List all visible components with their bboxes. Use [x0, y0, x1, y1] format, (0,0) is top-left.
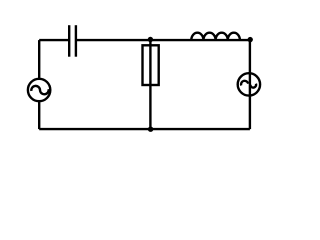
- AC source V2 sine left hump: [241, 81, 248, 86]
- wire left upper: [38, 40, 40, 79]
- node top-right junction dot: [248, 37, 253, 42]
- wire middle branch: [149, 40, 151, 129]
- AC source V1 sine: [31, 86, 48, 94]
- fuse F1 body: [143, 45, 159, 85]
- capacitor C1 plate left: [68, 25, 70, 57]
- wire top-left segment: [39, 39, 69, 41]
- wire top-middle segment: [76, 39, 250, 41]
- AC source V2 circle: [238, 73, 260, 95]
- AC source V1 circle: [28, 79, 50, 101]
- AC source V2 sine right hump: [250, 84, 256, 88]
- node bottom-middle junction dot: [148, 127, 153, 132]
- node top-middle junction dot: [148, 37, 153, 42]
- wire left lower: [38, 101, 40, 129]
- inductor L1: [191, 33, 240, 40]
- capacitor C1 plate right: [75, 25, 77, 57]
- wire bottom: [39, 128, 250, 130]
- wire right side: [249, 40, 251, 129]
